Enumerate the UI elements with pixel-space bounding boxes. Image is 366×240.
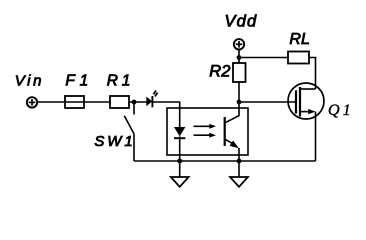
svg-text:R1: R1 (107, 73, 131, 90)
wire R1 to diode D1 (129, 101, 147, 103)
svg-text:Vin: Vin (15, 73, 42, 90)
wire D1 to LED anode corner (152, 102, 179, 127)
resistor R1 (110, 96, 129, 108)
terminal Vin (27, 97, 37, 107)
junction node emitter / ground (237, 159, 242, 164)
optocoupler U1 box (167, 108, 248, 155)
wire Vdd to R2 (238, 50, 240, 63)
MOSFET Q1 (288, 83, 324, 119)
wire Vdd to RL (239, 57, 288, 59)
light arrows of optocoupler U1 (194, 124, 217, 138)
junction node after R1 (132, 100, 137, 105)
wire RL to Q1 drain (309, 58, 316, 90)
junction node Vdd (237, 55, 242, 60)
svg-text:SW1: SW1 (94, 133, 132, 150)
phototransistor of optocoupler U1 (225, 102, 239, 161)
svg-text:R2: R2 (209, 63, 230, 81)
diode D1 (TVS) (146, 91, 157, 108)
bottom rail wire (134, 160, 316, 162)
LED inside optocoupler U1 (174, 127, 185, 161)
wire F1 to R1 (84, 101, 110, 103)
wire Vin to F1 (37, 101, 65, 103)
junction node gate (237, 100, 242, 105)
svg-text:F1: F1 (65, 73, 88, 90)
junction node LED cathode / ground (177, 159, 182, 164)
switch SW1 (124, 102, 134, 161)
ground (left) (171, 161, 189, 187)
wire gate node to Q1 gate (239, 101, 295, 103)
resistor RL (288, 52, 309, 64)
ground (right) (230, 161, 248, 187)
svg-text:Q1: Q1 (328, 100, 351, 119)
supply terminal Vdd (234, 39, 244, 49)
fuse F1 (65, 96, 84, 108)
resistor R2 (233, 63, 246, 82)
svg-text:RL: RL (289, 31, 310, 48)
wire Q1 source to bottom rail (315, 112, 317, 161)
svg-text:Vdd: Vdd (225, 13, 258, 31)
wire R2 to gate node (238, 82, 240, 102)
